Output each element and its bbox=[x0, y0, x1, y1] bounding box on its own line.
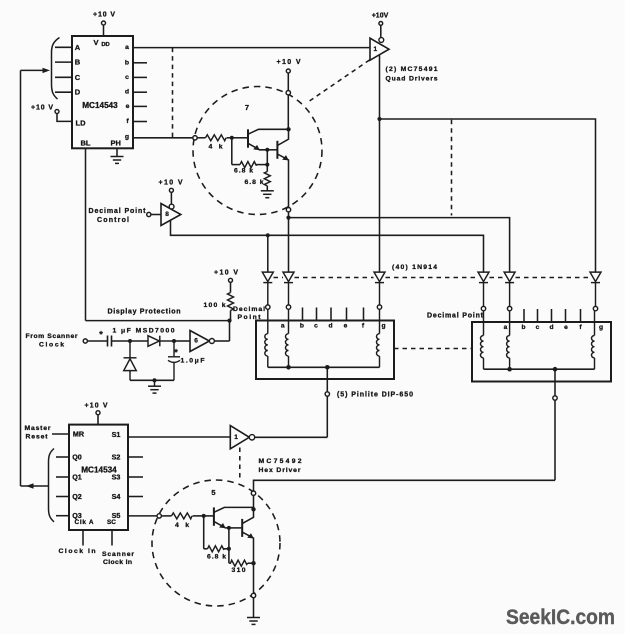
resistor 4k (circle 7) bbox=[197, 135, 232, 151]
wire emitter output down bbox=[288, 212, 290, 218]
wire input C bbox=[55, 76, 72, 78]
dashed diode-row link line bbox=[274, 277, 590, 279]
node Q3 emitter / Q4 base bbox=[227, 526, 231, 530]
svg-text:S2: S2 bbox=[112, 453, 121, 462]
pin terminal dp1 bbox=[266, 305, 270, 309]
wire emitter to ground bbox=[253, 598, 255, 618]
svg-text:+10 V: +10 V bbox=[85, 403, 108, 410]
svg-text:g: g bbox=[381, 322, 385, 329]
+10V supply terminal (100k pullup) bbox=[214, 270, 238, 293]
display DS2 Pinlite DIP-650 box bbox=[472, 322, 611, 382]
node clamp junction bbox=[128, 339, 132, 343]
dashed circle 7 (transistor detail of segment driver) bbox=[193, 87, 322, 215]
wire segment-g line bbox=[133, 137, 193, 139]
pin terminal g1 bbox=[377, 305, 381, 309]
node ground bus bbox=[153, 378, 157, 382]
capacitor C2 1.0uF filter bbox=[168, 341, 180, 380]
svg-text:d: d bbox=[549, 324, 553, 331]
svg-text:100 k: 100 k bbox=[204, 302, 226, 309]
wire +10V to collector node bbox=[287, 95, 289, 129]
svg-text:7: 7 bbox=[245, 103, 249, 112]
wire MR input bbox=[52, 433, 69, 435]
wire Q2 base node down bbox=[266, 150, 268, 165]
node Q1/Q2 collector rail bbox=[286, 127, 290, 131]
+10V supply terminal (circle 7 collector) bbox=[277, 59, 301, 90]
wire cap to diode bbox=[112, 340, 149, 342]
junction node a-feed bbox=[286, 216, 290, 220]
wire a-feed down to left display diode bbox=[288, 218, 290, 273]
filament lamp a2 bbox=[507, 311, 510, 369]
label Scanner Clock In bbox=[102, 551, 134, 566]
wire stub S2 bbox=[128, 456, 143, 458]
wire arrow into MC14534 output bracket bbox=[21, 483, 49, 488]
filament lamp dp1 bbox=[265, 309, 268, 367]
svg-text:SeekIC.com: SeekIC.com bbox=[506, 605, 615, 629]
svg-text:e: e bbox=[126, 103, 130, 110]
svg-text:5: 5 bbox=[211, 488, 215, 497]
label MC75492 Hex Driver bbox=[259, 458, 302, 474]
diode D_dp1 1N914 bbox=[262, 272, 273, 305]
wire to Q4 base bbox=[229, 527, 242, 529]
wire base node down bbox=[231, 138, 233, 165]
svg-text:(40) 1N914: (40) 1N914 bbox=[392, 264, 437, 271]
resistor 310 (circle 5) bbox=[229, 560, 254, 574]
svg-text:1.0μF: 1.0μF bbox=[181, 358, 205, 365]
diode D8 clamp to ground bbox=[124, 341, 137, 380]
svg-text:SC: SC bbox=[107, 519, 116, 526]
wire stub c bbox=[133, 76, 147, 78]
+10V supply terminal (MC14543 VDD) bbox=[93, 12, 115, 37]
svg-text:B: B bbox=[75, 58, 81, 67]
svg-text:+10 V: +10 V bbox=[159, 180, 183, 187]
node filter junction bbox=[172, 339, 176, 343]
wire stub S3 bbox=[128, 476, 143, 478]
svg-text:e: e bbox=[564, 324, 568, 331]
filament lamp g2 bbox=[592, 311, 595, 369]
junction node display protection bbox=[227, 319, 231, 323]
svg-text:LD: LD bbox=[76, 118, 87, 127]
wire stub e bbox=[133, 105, 147, 107]
label Decimal Point Control bbox=[89, 208, 147, 224]
node Q1 emitter / Q2 base bbox=[265, 148, 269, 152]
svg-text:Hex Driver: Hex Driver bbox=[259, 467, 301, 474]
svg-text:MC14534: MC14534 bbox=[81, 466, 117, 475]
svg-text:6.8 k: 6.8 k bbox=[234, 167, 253, 174]
svg-text:4 k: 4 k bbox=[175, 522, 189, 529]
display DS1 Pinlite DIP-650 box bbox=[256, 321, 394, 380]
filament lamp g1 bbox=[376, 309, 379, 367]
wire input D bbox=[55, 91, 72, 93]
dashed implied-connection vertical (right) bbox=[451, 120, 453, 216]
svg-text:a: a bbox=[125, 44, 129, 51]
svg-text:d: d bbox=[125, 89, 129, 96]
wire stub f bbox=[133, 121, 147, 123]
node common drop DS1 bbox=[325, 365, 330, 370]
svg-text:c: c bbox=[125, 74, 129, 81]
wire clamp ground bus bbox=[130, 379, 174, 381]
node 6.8k junction (circle 5) bbox=[227, 547, 231, 551]
svg-text:b: b bbox=[125, 59, 129, 66]
common terminal DS2 bbox=[553, 396, 557, 400]
transistor Q4 (circle 5, NPN) bbox=[242, 507, 254, 563]
resistor 6.8k horizontal (circle 7) bbox=[232, 162, 267, 175]
svg-text:Decimal Point: Decimal Point bbox=[427, 313, 484, 320]
svg-text:a: a bbox=[281, 322, 285, 329]
ground (circle 7) bbox=[261, 191, 274, 198]
wire U3 output bbox=[214, 340, 229, 342]
svg-text:MC14543: MC14543 bbox=[82, 101, 118, 110]
diode D_a2 1N914 bbox=[504, 272, 515, 306]
wire common bus (DS1) bbox=[268, 366, 380, 368]
wire stub Q0 bbox=[56, 456, 69, 458]
svg-text:b: b bbox=[300, 322, 304, 329]
wire bottom bus to circle 5 driver bbox=[254, 480, 556, 491]
svg-text:e: e bbox=[344, 323, 348, 330]
wire to buffer 6 bbox=[174, 340, 190, 342]
+10V supply terminal (U2a) bbox=[372, 13, 389, 38]
pin stub b1 bbox=[302, 308, 304, 321]
pin terminal dp2 bbox=[481, 306, 485, 310]
input bus bracket (A-D) bbox=[52, 38, 60, 100]
svg-text:Decimal: Decimal bbox=[233, 306, 265, 313]
resistor 100k bbox=[204, 293, 234, 321]
wire DS1 common to hex driver output bbox=[326, 396, 328, 437]
pin stub e1 bbox=[346, 308, 348, 321]
wire stub Q1 bbox=[56, 476, 69, 478]
svg-text:Q0: Q0 bbox=[72, 453, 82, 462]
input terminal (decimal point control) bbox=[147, 212, 151, 216]
node on circle boundary (+10V entry) bbox=[286, 91, 290, 95]
pin terminal a1 bbox=[286, 305, 290, 309]
svg-text:+10V: +10V bbox=[372, 13, 389, 20]
pin stub e2 bbox=[565, 309, 567, 322]
dashed link from U2a to transistor detail circle 7 bbox=[308, 60, 370, 102]
wire to Q2 base bbox=[267, 149, 276, 151]
node on circle 5 boundary (collector) bbox=[251, 491, 255, 495]
wire common drop DS1 bbox=[326, 367, 328, 392]
svg-text:6.8 k: 6.8 k bbox=[245, 179, 264, 186]
svg-text:Display Protection: Display Protection bbox=[108, 309, 181, 316]
node bus a2 bbox=[507, 367, 512, 372]
svg-text:+10 V: +10 V bbox=[277, 59, 301, 66]
svg-text:g: g bbox=[599, 324, 603, 331]
wire BL blanking line down bbox=[85, 148, 87, 320]
svg-text:S1: S1 bbox=[112, 430, 121, 439]
wire stub Q2 bbox=[56, 496, 69, 498]
wire SC down bbox=[111, 530, 113, 546]
pin stub d2 bbox=[551, 309, 553, 322]
pin stub f1 bbox=[363, 308, 365, 321]
svg-text:(5) Pinlite DIP-650: (5) Pinlite DIP-650 bbox=[337, 392, 413, 399]
label From Scanner Clock bbox=[26, 333, 78, 348]
node emitter output (circle 5) bbox=[251, 561, 255, 565]
svg-text:Scanner: Scanner bbox=[102, 551, 134, 558]
svg-text:S4: S4 bbox=[112, 492, 121, 501]
wire dp-feed down to left display diode bbox=[267, 235, 269, 272]
svg-text:Reset: Reset bbox=[26, 433, 49, 440]
svg-text:Q2: Q2 bbox=[72, 492, 82, 501]
wire to coupling cap bbox=[87, 340, 107, 342]
input terminal scanner clock bbox=[83, 339, 87, 343]
svg-text:Decimal Point: Decimal Point bbox=[89, 208, 147, 215]
wire Clk A down bbox=[82, 530, 84, 546]
+10V supply terminal (MC14534) bbox=[85, 403, 108, 425]
wire emitter down to boundary bbox=[253, 563, 255, 593]
dashed link between displays bbox=[394, 348, 472, 350]
transistor Q3 (circle 5, NPN) bbox=[214, 507, 254, 528]
node collector rail (circle 5) bbox=[251, 507, 255, 511]
wire junction down to U3 output bbox=[229, 321, 231, 341]
svg-text:+10 V: +10 V bbox=[31, 104, 53, 111]
node bus a1 bbox=[286, 365, 291, 370]
wire U4 output to DS1 common bbox=[255, 436, 328, 438]
label (2) MC75491 Quad Drivers bbox=[386, 66, 438, 82]
resistor 6.8k (circle 5) bbox=[204, 546, 229, 561]
svg-text:c: c bbox=[314, 323, 318, 330]
wire input to buffer 8 bbox=[151, 214, 161, 216]
svg-text:A: A bbox=[75, 43, 81, 52]
ground (PH) bbox=[111, 157, 124, 164]
svg-text:4 k: 4 k bbox=[209, 143, 223, 150]
wire stub d bbox=[133, 91, 147, 93]
resistor 6.8k vertical (circle 7) bbox=[245, 165, 271, 191]
wire U2a output down bbox=[379, 54, 381, 119]
wire PH to ground bbox=[116, 148, 118, 156]
svg-text:+10 V: +10 V bbox=[93, 12, 115, 19]
wire input B bbox=[55, 61, 72, 63]
svg-text:Clock: Clock bbox=[39, 341, 64, 348]
pin terminal g2 bbox=[593, 306, 597, 310]
diode D_dp2 1N914 bbox=[478, 272, 489, 306]
wire stub b bbox=[133, 62, 147, 64]
junction node bbox=[377, 117, 381, 121]
pin stub b2 bbox=[523, 309, 525, 322]
svg-text:Clk A: Clk A bbox=[75, 519, 94, 526]
node on circle 5 boundary (S5 input) bbox=[157, 514, 161, 518]
pin stub f2 bbox=[580, 309, 582, 322]
output bus bracket (Q0-Q3) bbox=[49, 449, 55, 522]
wire DS2 common down to bottom bus bbox=[554, 400, 556, 480]
svg-text:310: 310 bbox=[232, 567, 246, 574]
diode D7 series (MSD7000) bbox=[148, 336, 174, 347]
wire stub Q3 bbox=[56, 515, 69, 517]
node on circle boundary (emitter output) bbox=[286, 208, 290, 212]
svg-text:MR: MR bbox=[73, 430, 85, 439]
dashed circle 5 (transistor detail of hex driver) bbox=[152, 480, 280, 606]
IC U5 MC14534 counter bbox=[69, 425, 128, 530]
svg-text:D: D bbox=[75, 88, 81, 97]
node on circle boundary (g input) bbox=[193, 136, 197, 140]
diode D_g2 1N914 bbox=[590, 272, 601, 306]
wire to Q1 base bbox=[232, 137, 248, 139]
dashed implied-connection line (b-f) bbox=[172, 48, 174, 138]
node base Q1 bbox=[230, 136, 234, 140]
svg-text:Master: Master bbox=[25, 425, 51, 432]
wire left vertical bus (feedback) bbox=[20, 70, 22, 486]
+10V supply terminal (U2b) bbox=[159, 180, 183, 205]
wire to Q3 base bbox=[204, 515, 214, 517]
pin stub c2 bbox=[537, 309, 539, 322]
wire S1 to hex driver bbox=[128, 436, 230, 438]
svg-text:PH: PH bbox=[110, 139, 120, 148]
svg-text:g: g bbox=[125, 133, 129, 140]
dashed link U4 to circle 5 bbox=[239, 448, 241, 480]
svg-text:DD: DD bbox=[101, 42, 109, 48]
driver U2a (MC75491) triangle 1 bbox=[370, 38, 389, 61]
wire segment-a line to driver bbox=[133, 47, 370, 49]
svg-text:1: 1 bbox=[234, 434, 238, 441]
svg-text:b: b bbox=[521, 324, 525, 331]
ground (scanner clamp) bbox=[148, 380, 161, 393]
pin stub c1 bbox=[316, 308, 318, 321]
wire g-feed down to left display diode bbox=[379, 119, 381, 272]
node base Q3 bbox=[202, 514, 206, 518]
svg-text:1 μF MSD7000: 1 μF MSD7000 bbox=[113, 327, 175, 334]
capacitor C1 1uF MSD7000 bbox=[108, 336, 112, 347]
wire base node down (circle 5) bbox=[203, 516, 205, 549]
transistor Q2 (circle 7, NPN) bbox=[277, 129, 288, 207]
pin stub d1 bbox=[330, 308, 332, 321]
label Decimal Point (left display) bbox=[233, 306, 265, 321]
IC U1 MC14543 BCD-to-7seg latch/decoder bbox=[72, 36, 133, 148]
wire Q3 emitter node down bbox=[228, 528, 230, 563]
svg-text:d: d bbox=[328, 323, 332, 330]
svg-text:Clock In: Clock In bbox=[103, 559, 132, 566]
svg-text:*: * bbox=[174, 348, 178, 358]
ground (circle 5 emitter) bbox=[247, 618, 260, 625]
wire display protection line (BL to 100k junction) bbox=[86, 320, 230, 322]
svg-text:From Scanner: From Scanner bbox=[26, 333, 78, 340]
svg-text:V: V bbox=[93, 38, 98, 47]
svg-text:BL: BL bbox=[81, 138, 91, 147]
filament lamp dp2 bbox=[481, 311, 484, 369]
wire collector rail into circle 5 bbox=[253, 495, 255, 509]
node common drop DS2 bbox=[553, 367, 558, 372]
label Master Reset bbox=[25, 425, 51, 440]
svg-text:C: C bbox=[75, 73, 81, 82]
wire stub S4 bbox=[128, 496, 143, 498]
wire S5 out bbox=[128, 515, 157, 517]
wire common drop DS2 bbox=[554, 369, 556, 396]
svg-text:+10 V: +10 V bbox=[214, 270, 238, 277]
diode D_g1 1N914 bbox=[374, 272, 385, 305]
wire common bus (DS2) bbox=[484, 368, 595, 370]
node 6.8k junction bbox=[265, 163, 269, 167]
junction node dp-feed left bbox=[266, 233, 270, 237]
pin terminal a2 bbox=[507, 306, 511, 310]
wire input A bbox=[55, 46, 72, 48]
buffer U3 triangle 6 bbox=[190, 331, 214, 352]
svg-text:1: 1 bbox=[373, 46, 377, 53]
transistor Q1 (circle 7, NPN) bbox=[248, 129, 289, 150]
driver U2b triangle 8 bbox=[161, 204, 181, 226]
wire from left bus with arrow into bracket bbox=[21, 68, 51, 73]
filament lamp a1 bbox=[286, 309, 289, 367]
+10V terminal at LD bbox=[31, 104, 72, 121]
node on circle 5 boundary (emitter) bbox=[251, 593, 255, 597]
driver U4 (MC75492) triangle 1 bbox=[230, 426, 254, 449]
svg-text:Quad Drivers: Quad Drivers bbox=[386, 75, 438, 82]
wire U2b output down then right (decimal point bus) bbox=[171, 220, 484, 272]
svg-text:a: a bbox=[504, 324, 508, 331]
svg-text:6: 6 bbox=[194, 338, 198, 345]
svg-text:8: 8 bbox=[165, 211, 169, 218]
resistor 4k (circle 5) bbox=[161, 513, 203, 529]
wire a-feed bus right and down to right display bbox=[289, 218, 510, 273]
svg-text:6.8 k: 6.8 k bbox=[207, 553, 226, 560]
common terminal DS1 bbox=[325, 392, 329, 396]
diode D_a1 1N914 bbox=[283, 272, 294, 305]
wire top bus to right display g bbox=[380, 119, 596, 272]
svg-text:(2) MC75491: (2) MC75491 bbox=[386, 66, 438, 73]
svg-text:*: * bbox=[99, 330, 103, 340]
svg-text:c: c bbox=[536, 324, 540, 331]
